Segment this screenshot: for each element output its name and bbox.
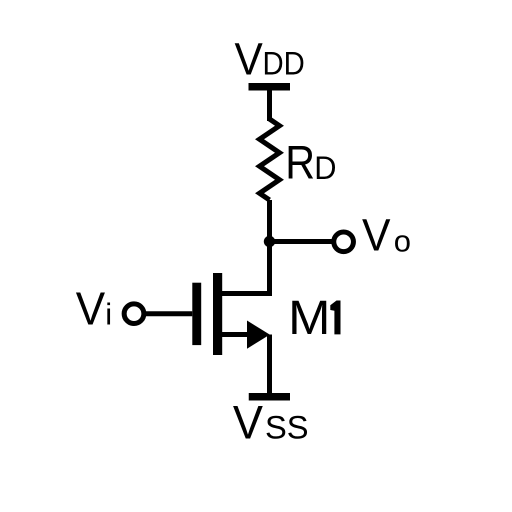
wire node to Vo terminal: [270, 239, 332, 244]
terminal Vo (open circle): [334, 232, 354, 252]
svg-text:V: V: [233, 396, 263, 449]
label VDD: [235, 33, 305, 84]
wire resistor to node: [267, 200, 272, 244]
wire drain horizontal: [222, 291, 273, 296]
wire source horizontal: [222, 332, 251, 337]
svg-text:V: V: [76, 282, 106, 334]
label RD: [285, 136, 336, 189]
wire gate from Vi: [146, 311, 193, 316]
svg-text:R: R: [285, 136, 315, 189]
svg-text:i: i: [105, 296, 112, 331]
svg-text:o: o: [394, 223, 411, 258]
digit 1 of M1 (drawn): [330, 301, 340, 335]
label Vi: [76, 282, 112, 334]
label VSS: [233, 396, 309, 449]
svg-text:DD: DD: [263, 46, 305, 82]
power rail VSS: [249, 393, 290, 401]
svg-text:D: D: [314, 150, 336, 186]
resistor RD: [260, 119, 280, 200]
svg-text:M: M: [288, 291, 330, 345]
svg-text:V: V: [362, 210, 391, 261]
svg-text:V: V: [235, 33, 264, 84]
terminal Vi (open circle): [124, 304, 144, 324]
transistor M1 channel bar: [213, 273, 222, 355]
wire node down to drain: [267, 242, 272, 297]
label Vo: [362, 210, 411, 261]
wire source down to VSS rail: [267, 335, 272, 397]
node junction dot: [264, 236, 275, 247]
source arrow: [247, 321, 270, 349]
power rail VDD: [249, 83, 291, 91]
transistor M1 gate bar: [192, 283, 201, 345]
svg-text:SS: SS: [265, 410, 309, 446]
wire VDD rail to resistor: [267, 90, 272, 121]
